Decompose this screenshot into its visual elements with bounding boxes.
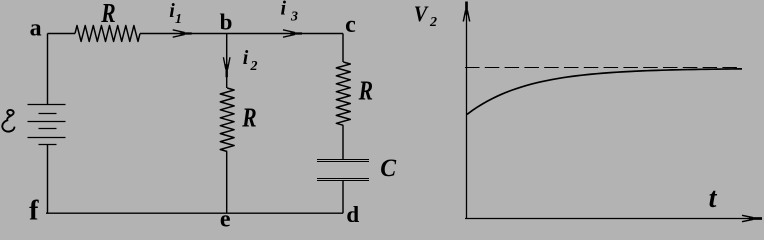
svg-text:C: C bbox=[380, 154, 397, 182]
svg-text:2: 2 bbox=[250, 59, 258, 74]
svg-text:i: i bbox=[281, 0, 287, 20]
svg-text:i: i bbox=[243, 47, 249, 69]
svg-text:e: e bbox=[220, 207, 231, 230]
svg-text:b: b bbox=[220, 9, 233, 34]
svg-text:c: c bbox=[345, 12, 356, 38]
svg-text:V: V bbox=[414, 1, 429, 26]
svg-text:d: d bbox=[346, 202, 359, 227]
svg-text:t: t bbox=[709, 183, 718, 214]
svg-text:R: R bbox=[100, 0, 115, 28]
svg-text:f: f bbox=[29, 196, 39, 227]
svg-text:a: a bbox=[30, 16, 42, 42]
svg-text:3: 3 bbox=[290, 10, 298, 25]
svg-text:R: R bbox=[358, 76, 373, 106]
svg-text:2: 2 bbox=[429, 15, 437, 30]
svg-text:R: R bbox=[241, 103, 256, 133]
svg-text:1: 1 bbox=[175, 12, 182, 27]
